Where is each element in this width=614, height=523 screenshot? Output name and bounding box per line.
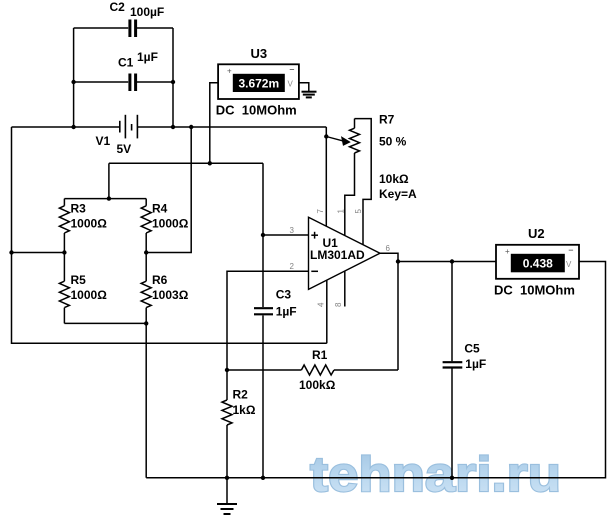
svg-text:V: V bbox=[288, 80, 294, 89]
svg-text:R6: R6 bbox=[152, 273, 168, 287]
svg-text:1000Ω: 1000Ω bbox=[71, 217, 108, 231]
svg-text:2: 2 bbox=[290, 262, 295, 271]
svg-text:R2: R2 bbox=[233, 388, 249, 402]
svg-text:R4: R4 bbox=[152, 202, 168, 216]
svg-text:R3: R3 bbox=[71, 202, 87, 216]
svg-text:C5: C5 bbox=[464, 341, 480, 355]
svg-text:C1: C1 bbox=[118, 56, 134, 70]
svg-text:1µF: 1µF bbox=[465, 357, 486, 371]
svg-text:3.672m: 3.672m bbox=[238, 76, 279, 90]
svg-text:1µF: 1µF bbox=[276, 305, 297, 319]
svg-text:R5: R5 bbox=[71, 273, 87, 287]
svg-text:1003Ω: 1003Ω bbox=[152, 288, 189, 302]
svg-text:6: 6 bbox=[386, 244, 391, 253]
svg-text:C2: C2 bbox=[110, 0, 126, 14]
svg-text:50 %: 50 % bbox=[379, 135, 407, 149]
svg-text:5V: 5V bbox=[117, 142, 132, 156]
svg-text:−: − bbox=[568, 245, 573, 255]
svg-text:8: 8 bbox=[334, 302, 343, 307]
svg-text:100µF: 100µF bbox=[130, 5, 164, 19]
svg-text:+: + bbox=[505, 247, 510, 256]
svg-text:3: 3 bbox=[290, 226, 295, 235]
svg-text:+: + bbox=[227, 67, 232, 76]
svg-text:1: 1 bbox=[337, 209, 346, 214]
svg-text:1000Ω: 1000Ω bbox=[71, 288, 108, 302]
svg-text:4: 4 bbox=[317, 302, 326, 307]
svg-text:−: − bbox=[289, 65, 294, 75]
svg-text:1µF: 1µF bbox=[137, 50, 158, 64]
svg-text:R7: R7 bbox=[379, 113, 395, 127]
svg-text:R1: R1 bbox=[312, 348, 328, 362]
svg-text:0.438: 0.438 bbox=[523, 257, 553, 271]
svg-text:DC 10MOhm: DC 10MOhm bbox=[216, 103, 297, 118]
svg-text:U3: U3 bbox=[251, 46, 268, 61]
svg-text:LM301AD: LM301AD bbox=[310, 248, 365, 262]
svg-text:V1: V1 bbox=[96, 134, 111, 148]
svg-text:1000Ω: 1000Ω bbox=[152, 217, 189, 231]
svg-text:tehnari.ru: tehnari.ru bbox=[310, 448, 561, 502]
svg-text:5: 5 bbox=[354, 209, 363, 214]
svg-text:Key=A: Key=A bbox=[379, 187, 417, 201]
svg-text:U2: U2 bbox=[528, 226, 545, 241]
svg-text:10kΩ: 10kΩ bbox=[379, 172, 409, 186]
svg-text:V: V bbox=[566, 260, 572, 269]
svg-text:1kΩ: 1kΩ bbox=[233, 403, 256, 417]
svg-text:7: 7 bbox=[316, 209, 325, 214]
svg-text:C3: C3 bbox=[276, 287, 292, 301]
svg-text:100kΩ: 100kΩ bbox=[299, 378, 336, 392]
svg-text:DC 10MOhm: DC 10MOhm bbox=[494, 283, 575, 298]
